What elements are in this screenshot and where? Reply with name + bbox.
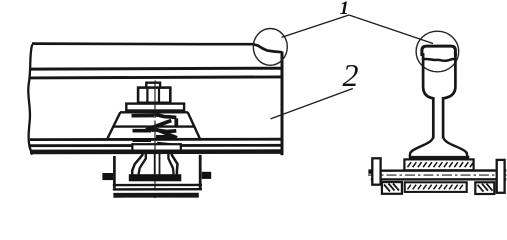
right block hatched — [475, 182, 494, 194]
rail head right side and web right — [443, 53, 455, 138]
wire rail foot line A — [30, 138, 283, 141]
wire beam line 2 — [30, 67, 283, 71]
lower strip hatch — [408, 185, 463, 190]
pad upper hatched — [404, 159, 473, 170]
right block hatch — [478, 184, 493, 192]
wire rail foot line B — [30, 144, 283, 147]
bolt bottom line — [371, 178, 507, 181]
plate under rail foot — [132, 144, 180, 150]
bracket left vertical — [113, 156, 116, 188]
rail head left side and web left — [423, 53, 433, 138]
svg-text:2: 2 — [343, 57, 359, 93]
funnel grommet outer right — [172, 151, 178, 175]
bolt left stub — [368, 169, 372, 173]
rail foot bottom — [409, 156, 470, 160]
bolt shank left line — [154, 151, 156, 175]
bracket base thick — [113, 193, 198, 198]
rail foot right flare — [443, 136, 467, 157]
funnel grommet inner right — [168, 151, 173, 175]
wire beam line 3 — [30, 77, 283, 78]
wire beam right end edge — [281, 52, 284, 156]
node centerline of fastener — [154, 81, 156, 201]
rail head worn wavy line — [422, 59, 455, 61]
bolt shank right line — [159, 151, 161, 175]
washer plate — [126, 104, 184, 111]
bolt shank lines through nut — [147, 87, 159, 102]
bolt stud top — [146, 83, 160, 88]
clamp trapezoid right side — [188, 112, 200, 138]
left block hatch — [384, 184, 399, 192]
clamp trapezoid left side — [108, 112, 121, 138]
funnel grommet outer left — [132, 151, 142, 175]
wire left break line — [28, 45, 32, 155]
funnel grommet inner left — [139, 151, 146, 175]
wire beam top edge with worn step — [32, 44, 282, 53]
left block hatched — [382, 182, 402, 194]
spring coil zigzag — [132, 115, 180, 146]
clamp trapezoid top — [120, 111, 188, 113]
lower strip hatched — [405, 182, 467, 192]
clamp trapezoid mid line — [114, 125, 195, 127]
rail foot left flare — [410, 136, 434, 157]
rail head top and corners — [422, 46, 456, 56]
leader 1 left — [282, 15, 350, 37]
leader 2 — [271, 89, 353, 119]
wire rail foot line C thick — [30, 149, 284, 154]
bracket lower line 1 — [113, 184, 202, 187]
bolt centerline — [368, 174, 507, 176]
bracket lower line 2 — [113, 188, 202, 191]
svg-text:1: 1 — [340, 0, 350, 19]
right end plate — [497, 160, 505, 193]
left nub — [102, 173, 113, 180]
leader 1 right — [349, 15, 433, 44]
nut — [138, 88, 170, 103]
pad hatch — [408, 162, 474, 167]
left end plate — [372, 158, 380, 184]
bracket right vertical — [199, 155, 202, 189]
callout circle left — [253, 29, 287, 66]
clamp bar solid — [129, 174, 182, 181]
right nub — [202, 172, 211, 179]
bolt top line — [371, 169, 507, 172]
callout circle right — [416, 31, 459, 72]
